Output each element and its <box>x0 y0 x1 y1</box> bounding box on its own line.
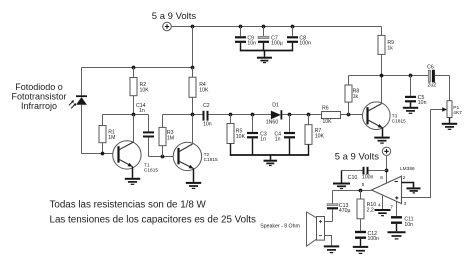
svg-text:100n: 100n <box>299 40 311 46</box>
svg-text:C6: C6 <box>427 64 434 70</box>
svg-text:5 a 9 Volts: 5 a 9 Volts <box>335 152 380 163</box>
svg-text:1n: 1n <box>139 108 145 114</box>
svg-text:100n: 100n <box>368 236 380 242</box>
junction: T2 collector / R4 / R3 <box>191 113 195 117</box>
junction: detector line / R7 <box>307 113 311 117</box>
wire: T2 base line <box>149 156 178 158</box>
junction: detector line / R5 <box>229 113 233 117</box>
svg-text:C10: C10 <box>348 175 358 181</box>
capacitor C4 <box>284 115 295 156</box>
svg-text:2: 2 <box>403 175 406 181</box>
svg-text:10n: 10n <box>247 40 256 46</box>
svg-text:1M: 1M <box>108 135 115 141</box>
potentiometer P1 <box>431 101 453 123</box>
capacitor C10 <box>342 167 387 175</box>
svg-text:2u2: 2u2 <box>428 83 437 89</box>
svg-text:Fototransistor: Fototransistor <box>11 92 66 102</box>
ground (C11) <box>388 232 406 239</box>
svg-text:10K: 10K <box>140 87 150 93</box>
wire: supply to LM386 pin 6 <box>386 155 388 183</box>
ground (LM386 pin 2) <box>407 188 421 193</box>
capacitor C3 <box>247 115 258 156</box>
capacitor C8 <box>287 27 298 51</box>
junction: rail / left branch <box>191 25 195 29</box>
svg-text:D1: D1 <box>272 102 279 108</box>
svg-text:Fotodiodo o: Fotodiodo o <box>15 82 63 92</box>
wire: T2 collector node line <box>163 114 203 116</box>
svg-text:C1815: C1815 <box>392 119 406 125</box>
svg-text:1N60: 1N60 <box>266 120 279 126</box>
junction: rail / C9 <box>239 25 243 29</box>
junction: output / R10 <box>359 189 363 193</box>
resistor R9 <box>378 27 385 76</box>
svg-text:Infrarrojo: Infrarrojo <box>21 101 57 111</box>
photodiode (infrared sensor) <box>76 68 87 154</box>
ground (detector) <box>264 155 278 166</box>
svg-text:10K: 10K <box>315 134 325 140</box>
wire: branch down to left rail <box>192 27 194 68</box>
resistor R10 <box>357 191 364 231</box>
capacitor C11 <box>391 217 402 231</box>
svg-text:C1815: C1815 <box>204 157 218 163</box>
ground (LM386 pin 4) <box>375 210 391 216</box>
svg-text:7: 7 <box>390 204 393 210</box>
svg-text:T2: T2 <box>204 152 210 158</box>
svg-text:LM386: LM386 <box>400 166 415 172</box>
resistor R5 <box>227 115 234 156</box>
ground (T1 emitter) <box>125 179 140 185</box>
capacitor C7 (electrolytic) <box>258 27 269 51</box>
svg-text:R6: R6 <box>322 105 329 111</box>
wire: pin 7 to C11 <box>396 202 398 216</box>
svg-text:10K: 10K <box>199 87 209 93</box>
power terminal (amp supply) <box>382 147 390 155</box>
speaker SP1 <box>307 212 325 246</box>
svg-text:4: 4 <box>378 203 381 209</box>
wire: T1 collector node line <box>103 114 149 116</box>
ground (C5) <box>403 108 418 114</box>
ground (C10) <box>333 171 350 189</box>
svg-text:10n: 10n <box>203 122 212 128</box>
wire: T3 collector node line <box>349 75 429 77</box>
svg-text:1k: 1k <box>387 46 393 52</box>
resistor R2 <box>130 68 137 115</box>
junction: T3 base / R8 <box>347 113 351 117</box>
ground (T2 emitter) <box>186 183 201 189</box>
diode D1 <box>271 110 322 119</box>
junction: rail / C7 <box>262 25 266 29</box>
junction: detector line / C4 <box>288 113 292 117</box>
svg-text:1n: 1n <box>260 136 266 142</box>
power terminal (top supply) <box>163 22 172 31</box>
junction: base line / R1 <box>101 152 105 156</box>
wire: C9/C7/C8 common bottom <box>240 50 293 52</box>
light arrows into photodiode <box>69 100 76 108</box>
wire: left supply rail <box>82 67 193 69</box>
junction: pin6 / C10 <box>385 169 389 173</box>
svg-text:C1815: C1815 <box>144 168 158 174</box>
wire: speaker low side <box>325 236 332 246</box>
capacitor C9 <box>235 27 246 51</box>
junction: detector line / C3 <box>251 113 255 117</box>
svg-text:6: 6 <box>380 175 383 181</box>
svg-text:Todas las resistencias son de: Todas las resistencias son de 1/8 W <box>50 200 207 211</box>
wire: pin 2 to ground <box>402 183 414 188</box>
junction: base line / R3 <box>161 155 165 159</box>
capacitor C6 (electrolytic coupling) <box>428 70 449 101</box>
capacitor C5 <box>405 76 416 107</box>
svg-text:100µ: 100µ <box>271 40 283 46</box>
capacitor C14 <box>143 115 154 157</box>
svg-text:3: 3 <box>404 201 407 207</box>
op-amp U1 LM386 <box>372 176 402 203</box>
resistor R3 <box>159 115 166 157</box>
svg-text:100n: 100n <box>362 174 374 180</box>
capacitor C2 <box>204 111 272 121</box>
svg-text:C2: C2 <box>203 103 210 109</box>
svg-text:5 a 9 Volts: 5 a 9 Volts <box>152 11 197 22</box>
resistor R6 <box>322 112 341 119</box>
svg-text:T3: T3 <box>392 114 398 120</box>
wire: P1 wiper to LM386 pin 3 <box>402 110 431 198</box>
svg-text:Speaker - 8 Ohm: Speaker - 8 Ohm <box>260 224 300 230</box>
svg-text:Las tensiones de los capacitor: Las tensiones de los capacitores es de 2… <box>50 214 257 225</box>
svg-text:T1: T1 <box>144 162 150 168</box>
capacitor C12 <box>355 232 366 246</box>
junction: left rail / R4 <box>191 66 195 70</box>
svg-text:10K: 10K <box>236 134 246 140</box>
transistor T3 <box>363 76 391 137</box>
svg-text:2,2: 2,2 <box>367 207 374 213</box>
wire: +V rail top <box>171 26 382 28</box>
resistor R7 <box>305 115 312 156</box>
ground (speaker) <box>324 246 339 252</box>
resistor R8 <box>345 76 352 115</box>
svg-text:4K7: 4K7 <box>453 110 462 116</box>
wire: R6 to T3 base <box>341 114 367 116</box>
ground (P1) <box>442 124 457 130</box>
junction: T3 collector / R9 <box>380 74 384 78</box>
transistor T1 <box>113 115 141 178</box>
wire: T1 base line <box>82 153 118 155</box>
ground (C12) <box>353 247 368 254</box>
wire: detector common bottom <box>230 154 309 156</box>
junction: rail / C8 <box>291 25 295 29</box>
svg-text:5: 5 <box>362 182 365 188</box>
resistor R4 <box>189 68 196 115</box>
wire: pin 4 to ground <box>382 195 384 209</box>
wire: LM386 output (pin 5) <box>333 190 372 192</box>
junction: T1 collector / R2 / R1 <box>132 113 136 117</box>
ground (filter caps) <box>257 51 272 63</box>
capacitor C13 (electrolytic output) <box>325 191 339 222</box>
svg-text:10K: 10K <box>322 119 332 125</box>
svg-text:10n: 10n <box>404 222 413 228</box>
resistor R1 <box>99 115 106 154</box>
svg-text:1n: 1n <box>275 136 281 142</box>
junction: left rail / R2 <box>132 66 136 70</box>
svg-text:470µ: 470µ <box>339 208 351 214</box>
transistor T2 <box>173 115 201 182</box>
ground (T3 emitter) <box>374 138 389 144</box>
svg-text:1M: 1M <box>167 135 174 141</box>
svg-text:10n: 10n <box>418 100 427 106</box>
junction: collector line / C5 <box>409 74 413 78</box>
svg-text:1k: 1k <box>353 94 359 100</box>
